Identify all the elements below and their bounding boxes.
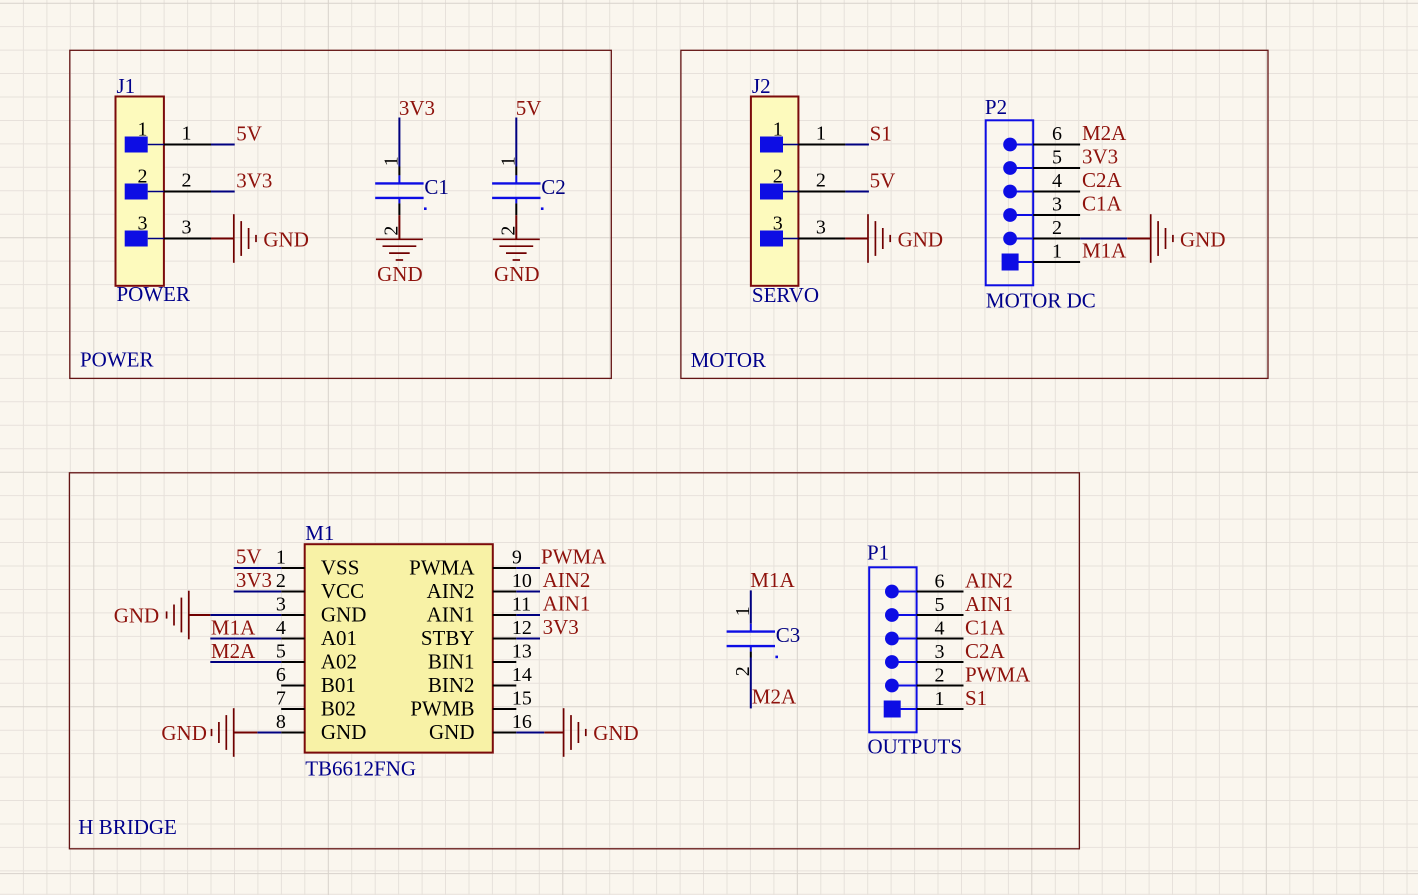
wire J2.2 to 5V — [845, 191, 869, 193]
svg-text:POWER: POWER — [80, 348, 154, 372]
J2 comment SERVO — [752, 283, 819, 307]
net label M2A — [752, 685, 797, 709]
wire 5V to C2.1 — [515, 118, 517, 167]
wire J1.2 to 3V3 — [211, 191, 235, 193]
C3 pin 1 — [732, 606, 754, 631]
svg-text:2: 2 — [1052, 217, 1062, 239]
svg-text:7: 7 — [276, 687, 286, 709]
svg-text:3: 3 — [935, 641, 945, 663]
svg-text:PWMA: PWMA — [965, 662, 1031, 686]
svg-text:12: 12 — [512, 617, 532, 639]
svg-text:SERVO: SERVO — [752, 283, 819, 307]
svg-text:6: 6 — [276, 664, 286, 686]
svg-text:GND: GND — [593, 721, 639, 745]
svg-text:1: 1 — [935, 688, 945, 710]
J1 comment POWER — [117, 282, 191, 306]
net label 3V3 (M1 right) — [543, 615, 579, 639]
svg-text:P1: P1 — [867, 541, 889, 565]
svg-text:BIN2: BIN2 — [428, 673, 475, 697]
net label C1A (P1) — [965, 615, 1006, 639]
P1 pin 2 — [885, 664, 964, 692]
M1 pin 5 A02 — [276, 640, 357, 673]
C1 pin 2 — [380, 198, 402, 236]
P2 pin 1 — [1002, 241, 1081, 271]
J1 pin 3 — [125, 212, 211, 246]
svg-text:AIN2: AIN2 — [427, 579, 475, 603]
svg-text:C2A: C2A — [965, 639, 1006, 663]
wire 5V to M1.1 — [234, 567, 282, 569]
net label 5V (J2) — [870, 169, 896, 193]
P1 pin 6 — [885, 570, 964, 598]
M1 pin 3 GND — [276, 593, 367, 626]
svg-text:TB6612FNG: TB6612FNG — [305, 756, 416, 780]
svg-text:A02: A02 — [321, 650, 357, 674]
svg-text:M2A: M2A — [1082, 121, 1127, 145]
svg-text:5: 5 — [935, 594, 945, 616]
svg-text:5V: 5V — [236, 122, 262, 146]
svg-text:9: 9 — [512, 546, 522, 568]
P1 pin 3 — [885, 641, 964, 669]
net label M1A (P2) — [1082, 239, 1127, 263]
svg-text:6: 6 — [1052, 123, 1062, 145]
net label 3V3 — [399, 96, 435, 120]
svg-text:C2: C2 — [541, 175, 566, 199]
svg-text:GND: GND — [263, 227, 309, 251]
net label AIN2 (M1 right) — [543, 568, 591, 592]
C3 pin 2 — [732, 646, 754, 676]
svg-text:GND: GND — [429, 720, 475, 744]
capacitor C3 — [727, 623, 801, 658]
ground C2.2 GND power port — [493, 215, 540, 286]
svg-text:VCC: VCC — [321, 579, 364, 603]
J2 pin 2 — [760, 165, 845, 199]
svg-text:2: 2 — [773, 165, 783, 187]
svg-text:POWER: POWER — [117, 282, 191, 306]
svg-text:1: 1 — [276, 546, 286, 568]
M1 pin 11 AIN1 — [427, 593, 531, 626]
wire M1.10 to AIN2 — [516, 591, 540, 593]
net label C1A (P2) — [1082, 192, 1123, 216]
svg-text:4: 4 — [1052, 170, 1062, 192]
M1 pin 2 VCC — [276, 570, 364, 603]
J2 designator — [752, 74, 771, 98]
net label M1A (M1) — [211, 616, 256, 640]
svg-text:1: 1 — [497, 156, 519, 166]
net label AIN2 (P1) — [965, 568, 1013, 592]
net label M2A (M1) — [211, 639, 256, 663]
ground P2.2 GND power port — [1127, 214, 1225, 263]
net label PWMA (P1) — [965, 662, 1031, 686]
svg-text:M2A: M2A — [752, 685, 797, 709]
P2 pin 4 — [1003, 170, 1080, 198]
svg-text:GND: GND — [321, 720, 367, 744]
wire GND to M1.3 — [210, 614, 281, 616]
ground M1.16 GND power port — [544, 708, 638, 757]
svg-text:MOTOR DC: MOTOR DC — [986, 289, 1096, 313]
svg-text:M2A: M2A — [211, 639, 256, 663]
C2 pin 1 — [497, 156, 519, 183]
wire GND to M1.8 — [257, 732, 281, 734]
P2 pin 5 — [1003, 147, 1080, 175]
P1 comment OUTPUTS — [868, 735, 963, 759]
C2 pin 2 — [497, 198, 519, 236]
svg-text:AIN2: AIN2 — [543, 568, 591, 592]
svg-text:GND: GND — [114, 604, 160, 628]
connector P1 body — [869, 567, 916, 732]
svg-text:3: 3 — [138, 212, 148, 234]
wire J2.1 to S1 — [845, 144, 869, 146]
net label C2A (P2) — [1082, 168, 1123, 192]
svg-text:16: 16 — [512, 711, 532, 733]
net label AIN1 (M1 right) — [543, 591, 591, 615]
connector J1 body — [116, 97, 164, 286]
P1 pin 1 — [884, 688, 964, 718]
capacitor C1 — [375, 175, 449, 210]
svg-text:3V3: 3V3 — [236, 568, 272, 592]
net label M1A — [750, 568, 795, 592]
svg-text:STBY: STBY — [421, 626, 475, 650]
svg-text:10: 10 — [512, 570, 532, 592]
block MOTOR — [681, 50, 1268, 378]
wire C3.2 to M2A — [750, 658, 752, 709]
J1 designator — [117, 74, 136, 98]
svg-text:1: 1 — [816, 123, 826, 145]
net label 3V3 (P2) — [1082, 145, 1118, 169]
J1 pin 2 — [125, 165, 211, 199]
M1 pin 9 PWMA — [409, 546, 522, 579]
svg-text:J1: J1 — [117, 74, 136, 98]
net label 5V — [236, 122, 262, 146]
M1 pin 8 GND — [276, 711, 367, 744]
wire M1A to C3.1 — [750, 590, 752, 623]
net label 3V3 (M1) — [236, 568, 272, 592]
svg-text:3: 3 — [182, 217, 192, 239]
svg-text:3: 3 — [1052, 194, 1062, 216]
svg-text:2: 2 — [816, 170, 826, 192]
wire M1.11 to AIN1 — [516, 614, 540, 616]
svg-text:5V: 5V — [516, 96, 542, 120]
svg-text:6: 6 — [935, 570, 945, 592]
svg-text:5: 5 — [276, 640, 286, 662]
P2 pin 3 — [1003, 194, 1080, 222]
svg-text:S1: S1 — [965, 686, 987, 710]
svg-text:2: 2 — [182, 170, 192, 192]
svg-text:H BRIDGE: H BRIDGE — [78, 815, 177, 839]
P2 designator — [985, 95, 1007, 119]
svg-text:2: 2 — [935, 664, 945, 686]
P1 pin 4 — [885, 617, 964, 645]
C1 pin 1 — [380, 156, 402, 183]
M1 designator — [305, 521, 334, 545]
block POWER — [70, 50, 612, 378]
svg-text:S1: S1 — [870, 122, 892, 146]
net label PWMA (M1 right) — [541, 544, 607, 568]
svg-text:3: 3 — [773, 212, 783, 234]
net label AIN1 (P1) — [965, 592, 1013, 616]
connector J2 body — [751, 97, 799, 286]
net label C2A (P1) — [965, 639, 1006, 663]
svg-text:3V3: 3V3 — [236, 169, 272, 193]
svg-text:OUTPUTS: OUTPUTS — [868, 735, 963, 759]
connector P2 body — [986, 120, 1033, 285]
svg-text:4: 4 — [276, 617, 286, 639]
svg-text:3: 3 — [276, 593, 286, 615]
svg-text:1: 1 — [732, 606, 754, 616]
svg-text:M1A: M1A — [750, 568, 795, 592]
P2 pin 2 — [1003, 217, 1080, 245]
M1 pin 4 A01 — [276, 617, 357, 650]
svg-text:PWMB: PWMB — [410, 697, 474, 721]
svg-text:1: 1 — [138, 118, 148, 140]
M1 pin 10 AIN2 — [427, 570, 532, 603]
svg-text:1: 1 — [182, 123, 192, 145]
net label 5V — [516, 96, 542, 120]
svg-text:4: 4 — [935, 617, 945, 639]
svg-text:13: 13 — [512, 640, 532, 662]
wire J1.1 to 5V — [211, 144, 235, 146]
P1 pin 5 — [885, 594, 964, 622]
svg-text:8: 8 — [276, 711, 286, 733]
svg-text:PWMA: PWMA — [541, 544, 607, 568]
net label M2A (P2) — [1082, 121, 1127, 145]
net label S1 — [870, 122, 892, 146]
P1 designator — [867, 541, 889, 565]
wire M2A to M1.5 — [210, 661, 281, 663]
svg-text:C1A: C1A — [965, 615, 1006, 639]
M1 pin 14 BIN2 — [428, 664, 532, 697]
svg-text:11: 11 — [512, 593, 531, 615]
svg-text:3V3: 3V3 — [1082, 145, 1118, 169]
M1 pin 7 B02 — [276, 687, 356, 720]
svg-text:MOTOR: MOTOR — [691, 348, 766, 372]
svg-text:GND: GND — [494, 262, 540, 286]
net label 3V3 — [236, 169, 272, 193]
svg-text:1: 1 — [773, 118, 783, 140]
svg-text:5V: 5V — [236, 544, 262, 568]
svg-text:PWMA: PWMA — [409, 556, 475, 580]
svg-text:M1A: M1A — [211, 616, 256, 640]
svg-text:AIN1: AIN1 — [427, 603, 475, 627]
J1 pin 1 — [125, 118, 211, 152]
M1 comment TB6612FNG — [305, 756, 416, 780]
svg-text:15: 15 — [512, 687, 532, 709]
svg-text:GND: GND — [898, 227, 944, 251]
wire M1A to M1.4 — [210, 638, 281, 640]
svg-text:J2: J2 — [752, 74, 771, 98]
svg-text:5V: 5V — [870, 169, 896, 193]
svg-text:2: 2 — [276, 570, 286, 592]
svg-text:P2: P2 — [985, 95, 1007, 119]
wire M1.16 to GND — [516, 732, 544, 734]
svg-text:GND: GND — [321, 603, 367, 627]
M1 pin 6 B01 — [276, 664, 356, 697]
wire M1.12 to 3V3 — [516, 638, 540, 640]
M1 pin 1 VSS — [276, 546, 360, 579]
ground M1.3 GND power port — [114, 591, 211, 640]
net label 5V (M1) — [236, 544, 262, 568]
svg-text:C2A: C2A — [1082, 168, 1123, 192]
wire 3V3 to C1.1 — [398, 118, 400, 167]
ground J1.3 GND power port — [211, 214, 309, 263]
svg-text:C1A: C1A — [1082, 192, 1123, 216]
block H BRIDGE — [69, 473, 1079, 849]
svg-text:BIN1: BIN1 — [428, 650, 475, 674]
svg-text:C1: C1 — [424, 175, 449, 199]
ground C1.2 GND power port — [376, 215, 423, 286]
svg-text:M1: M1 — [305, 521, 334, 545]
svg-text:C3: C3 — [776, 623, 801, 647]
svg-text:VSS: VSS — [321, 556, 360, 580]
svg-text:M1A: M1A — [1082, 239, 1127, 263]
svg-text:3V3: 3V3 — [543, 615, 579, 639]
ground J2.3 GND power port — [845, 214, 943, 263]
M1 pin 16 GND — [429, 711, 532, 744]
svg-text:GND: GND — [1180, 227, 1226, 251]
svg-text:AIN1: AIN1 — [965, 592, 1013, 616]
J2 pin 1 — [760, 118, 845, 152]
wire P2.2 to GND — [1080, 238, 1127, 240]
net label S1 (P1) — [965, 686, 987, 710]
svg-text:3V3: 3V3 — [399, 96, 435, 120]
svg-text:AIN1: AIN1 — [543, 591, 591, 615]
ground M1.8 GND power port — [161, 708, 257, 757]
P2 pin 6 — [1003, 123, 1080, 151]
svg-text:3: 3 — [816, 217, 826, 239]
svg-text:1: 1 — [380, 156, 402, 166]
P2 comment MOTOR DC — [986, 289, 1096, 313]
M1 pin 13 BIN1 — [428, 640, 532, 673]
IC M1 body — [305, 544, 493, 752]
svg-text:2: 2 — [138, 165, 148, 187]
svg-text:AIN2: AIN2 — [965, 568, 1013, 592]
svg-text:A01: A01 — [321, 626, 357, 650]
svg-text:1: 1 — [1052, 241, 1062, 263]
svg-text:14: 14 — [512, 664, 532, 686]
svg-text:B01: B01 — [321, 673, 356, 697]
wire 3V3 to M1.2 — [234, 591, 282, 593]
M1 pin 12 STBY — [421, 617, 532, 650]
svg-text:GND: GND — [377, 262, 423, 286]
wire M1.9 to PWMA — [516, 567, 540, 569]
M1 pin 15 PWMB — [410, 687, 532, 720]
svg-text:5: 5 — [1052, 147, 1062, 169]
svg-text:B02: B02 — [321, 697, 356, 721]
J2 pin 3 — [760, 212, 845, 246]
capacitor C2 — [492, 175, 566, 210]
svg-text:GND: GND — [161, 721, 207, 745]
